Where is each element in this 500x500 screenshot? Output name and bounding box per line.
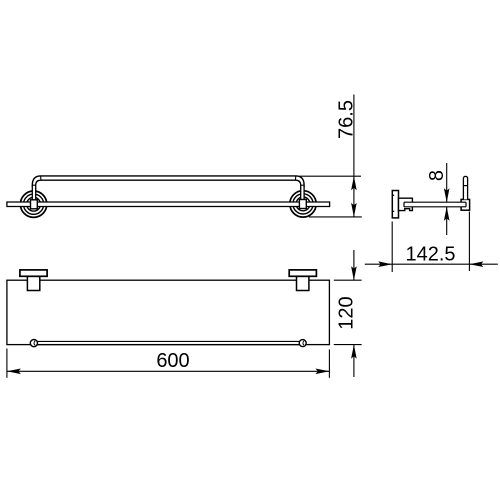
dim 76.5: bottom extension line (flange bottom) (309, 216, 362, 218)
front view: left rail riser tube (32, 186, 35, 200)
dim 8: text label (426, 170, 448, 181)
side view: end clamp (461, 199, 470, 210)
dim 142.5: left arrowhead pointing right (378, 261, 392, 267)
side view: glass shelf profile (404, 202, 466, 207)
dim 120: top extension line (334, 279, 362, 281)
dim 600: right arrowhead pointing right (315, 369, 329, 375)
svg-text:8: 8 (426, 170, 448, 181)
plan view: towel rail tube (37, 341, 300, 344)
dim 8: vertical dimension line lower segment (446, 207, 448, 235)
dim 120: upper dimension line segment (353, 250, 355, 280)
dim 142.5: right arrowhead pointing left (469, 261, 483, 267)
dim 8: upper arrowhead pointing down (444, 188, 450, 202)
front view: right mounting flange circles (290, 191, 316, 217)
side view: wall plate (392, 191, 398, 218)
side view: rail post with rounded cap (463, 176, 467, 199)
front view: towel rail tube with elbow bends (32, 176, 304, 189)
plan view: left rail post circle (30, 340, 37, 347)
front view: left mounting flange circles (20, 191, 46, 217)
front view: glass shelf edge bar (7, 201, 330, 207)
side view: bracket arm (399, 198, 413, 210)
dim 120: upper arrowhead pointing down (351, 266, 357, 280)
dim 76.5: lower arrowhead (351, 203, 357, 217)
dim 76.5: upper arrowhead (351, 176, 357, 190)
front view: left flange post (31, 200, 38, 209)
dim 8: lower arrowhead pointing up (444, 207, 450, 221)
svg-text:142.5: 142.5 (405, 243, 455, 265)
dim 142.5: left extension line (391, 222, 393, 273)
dim 142.5: right extension line (468, 212, 470, 272)
dim 120: lower arrowhead pointing up (351, 345, 357, 359)
plan view: left wall plate bar (20, 270, 47, 276)
dim 120: bottom extension line (334, 344, 362, 346)
dim 600: left extension line (6, 349, 8, 378)
svg-text:600: 600 (156, 350, 189, 372)
front view: left elbow joint lines (32, 176, 41, 185)
dim 600: right extension line (328, 349, 330, 377)
dim 76.5: top extension line (rail top) (300, 175, 362, 177)
front view: right rail riser tube (301, 186, 304, 200)
plan view: right wall plate bar (289, 270, 316, 276)
front view: right elbow joint lines (295, 176, 304, 185)
dim 8: vertical dimension line upper segment (446, 163, 448, 202)
dim 120: lower dimension line segment (353, 345, 355, 377)
plan view: shelf outline rectangle (7, 280, 330, 344)
dim 142.5: text label (405, 243, 455, 265)
plan view: right bracket post (297, 276, 309, 290)
svg-text:76.5: 76.5 (335, 100, 357, 139)
dim 600: left arrowhead pointing left (7, 369, 21, 375)
svg-text:120: 120 (335, 296, 357, 329)
dim 76.5: vertical dimension line (353, 95, 355, 217)
dim 600: horizontal dimension line (7, 370, 330, 372)
dim 142.5: horizontal dimension line (365, 263, 498, 265)
dim 120: text label (335, 296, 357, 329)
front view: right flange post (299, 200, 306, 209)
dim 600: text label (156, 350, 189, 372)
dim 76.5: text label (335, 100, 357, 139)
plan view: right rail post circle (299, 340, 306, 347)
plan view: left bracket post (27, 276, 39, 290)
